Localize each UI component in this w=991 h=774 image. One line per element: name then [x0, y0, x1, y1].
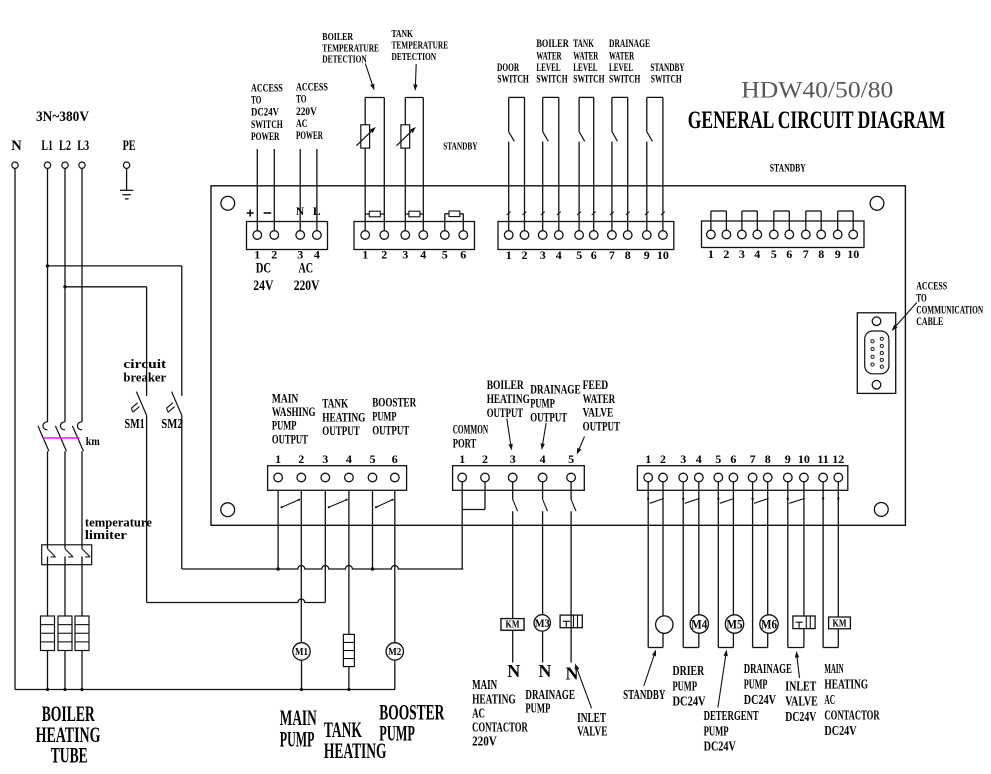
- svg-text:L3: L3: [77, 138, 89, 154]
- svg-text:1: 1: [506, 248, 512, 262]
- svg-text:POWER: POWER: [296, 128, 323, 142]
- svg-text:BOOSTER: BOOSTER: [372, 395, 416, 410]
- svg-text:4: 4: [556, 248, 562, 262]
- svg-text:TANK: TANK: [322, 396, 349, 411]
- svg-text:DETECTION: DETECTION: [392, 51, 437, 63]
- svg-text:PUMP: PUMP: [673, 678, 698, 693]
- svg-text:7: 7: [803, 247, 809, 261]
- svg-text:BOILER: BOILER: [322, 31, 354, 43]
- svg-text:7: 7: [750, 452, 756, 466]
- svg-text:TUBE: TUBE: [51, 743, 88, 768]
- svg-text:TEMPERATURE: TEMPERATURE: [392, 40, 449, 52]
- svg-text:STANDBY: STANDBY: [770, 162, 806, 174]
- svg-text:HEATING: HEATING: [487, 391, 530, 406]
- svg-text:PUMP: PUMP: [272, 418, 297, 433]
- svg-text:km: km: [86, 434, 100, 448]
- svg-text:BOILER: BOILER: [487, 377, 524, 392]
- svg-text:8: 8: [625, 248, 631, 262]
- svg-text:1: 1: [275, 452, 281, 466]
- svg-text:HEATING: HEATING: [824, 677, 868, 692]
- svg-text:HEATING: HEATING: [472, 691, 516, 706]
- svg-text:DC24V: DC24V: [824, 723, 856, 738]
- svg-text:circuit: circuit: [123, 356, 167, 371]
- svg-text:DRIER: DRIER: [673, 663, 705, 678]
- svg-text:limiter: limiter: [85, 528, 128, 542]
- svg-text:DRAINAGE: DRAINAGE: [530, 381, 581, 396]
- svg-text:8: 8: [765, 452, 771, 466]
- svg-text:N: N: [538, 661, 551, 681]
- svg-text:OUTPUT: OUTPUT: [530, 409, 567, 424]
- svg-text:STANDBY: STANDBY: [623, 687, 665, 702]
- svg-text:M3: M3: [535, 616, 550, 630]
- svg-text:FEED: FEED: [583, 377, 609, 392]
- svg-text:CABLE: CABLE: [916, 314, 943, 328]
- svg-text:OUTPUT: OUTPUT: [372, 423, 409, 438]
- svg-text:PUMP: PUMP: [704, 723, 729, 738]
- svg-text:TANK: TANK: [392, 28, 414, 40]
- svg-text:4: 4: [696, 452, 702, 466]
- svg-text:OUTPUT: OUTPUT: [487, 405, 524, 420]
- svg-text:OUTPUT: OUTPUT: [322, 423, 360, 438]
- svg-text:AC: AC: [824, 692, 835, 707]
- svg-text:WASHING: WASHING: [272, 404, 316, 419]
- svg-text:PUMP: PUMP: [372, 409, 396, 424]
- svg-text:PUMP: PUMP: [525, 701, 550, 716]
- svg-text:4: 4: [420, 248, 426, 262]
- svg-text:DC24V: DC24V: [744, 692, 776, 707]
- svg-text:PUMP: PUMP: [744, 676, 768, 691]
- svg-text:9: 9: [835, 247, 841, 261]
- svg-text:HDW40/50/80: HDW40/50/80: [741, 77, 893, 102]
- svg-text:SWITCH: SWITCH: [536, 72, 568, 86]
- svg-text:AC: AC: [299, 260, 314, 276]
- svg-text:N: N: [11, 138, 22, 154]
- svg-text:L2: L2: [59, 138, 71, 154]
- svg-text:4: 4: [754, 247, 760, 261]
- svg-text:GENERAL CIRCUIT DIAGRAM: GENERAL CIRCUIT DIAGRAM: [688, 107, 945, 134]
- svg-text:5: 5: [442, 248, 448, 262]
- svg-text:2: 2: [522, 248, 528, 262]
- svg-text:5: 5: [771, 247, 777, 261]
- svg-text:220V: 220V: [472, 734, 497, 749]
- svg-text:1: 1: [362, 248, 368, 262]
- svg-text:2: 2: [271, 248, 277, 262]
- svg-text:SWITCH: SWITCH: [651, 72, 682, 86]
- svg-text:3: 3: [510, 452, 516, 466]
- svg-text:9: 9: [785, 452, 791, 466]
- svg-text:VALVE: VALVE: [577, 724, 607, 739]
- svg-text:5: 5: [576, 248, 582, 262]
- svg-text:10: 10: [657, 248, 669, 262]
- svg-text:220V: 220V: [294, 278, 320, 294]
- svg-text:HEATING: HEATING: [324, 738, 387, 763]
- svg-text:M1: M1: [295, 646, 308, 658]
- svg-text:8: 8: [818, 247, 824, 261]
- svg-text:4: 4: [346, 452, 352, 466]
- svg-text:VALVE: VALVE: [583, 405, 614, 420]
- svg-text:KM: KM: [506, 620, 520, 631]
- svg-text:L: L: [313, 206, 321, 218]
- svg-text:6: 6: [591, 248, 597, 262]
- svg-text:MAIN: MAIN: [472, 677, 497, 692]
- svg-text:4: 4: [540, 452, 546, 466]
- svg-text:OUTPUT: OUTPUT: [583, 418, 621, 433]
- svg-text:10: 10: [798, 452, 810, 466]
- svg-text:1: 1: [645, 452, 651, 466]
- svg-text:PUMP: PUMP: [379, 721, 415, 746]
- svg-text:PORT: PORT: [453, 436, 477, 451]
- svg-text:M2: M2: [388, 646, 401, 658]
- svg-text:HEATING: HEATING: [322, 409, 365, 424]
- svg-text:2: 2: [298, 452, 304, 466]
- svg-text:PUMP: PUMP: [280, 726, 315, 751]
- svg-text:OUTPUT: OUTPUT: [272, 432, 308, 447]
- svg-text:3: 3: [739, 247, 745, 261]
- svg-text:6: 6: [460, 248, 466, 262]
- svg-text:DC: DC: [256, 260, 271, 276]
- svg-text:DC24V: DC24V: [673, 694, 706, 709]
- svg-text:5: 5: [715, 452, 721, 466]
- svg-text:AC: AC: [472, 705, 485, 720]
- svg-text:DETECTION: DETECTION: [322, 53, 366, 65]
- svg-text:PE: PE: [123, 138, 136, 154]
- svg-text:N: N: [507, 661, 520, 681]
- svg-text:VALVE: VALVE: [785, 694, 818, 709]
- svg-text:5: 5: [568, 452, 574, 466]
- svg-text:PUMP: PUMP: [530, 395, 555, 410]
- svg-text:1: 1: [459, 452, 465, 466]
- svg-text:KM: KM: [833, 619, 847, 630]
- svg-text:10: 10: [847, 247, 859, 261]
- svg-text:2: 2: [723, 247, 729, 261]
- svg-text:3N~380V: 3N~380V: [36, 109, 89, 125]
- svg-text:MAIN: MAIN: [824, 661, 843, 676]
- svg-text:4: 4: [314, 248, 320, 262]
- svg-text:DETERGENT: DETERGENT: [704, 708, 759, 723]
- svg-text:L1: L1: [41, 138, 53, 154]
- svg-text:6: 6: [786, 247, 792, 261]
- svg-text:SWITCH: SWITCH: [497, 72, 529, 86]
- svg-text:3: 3: [402, 248, 408, 262]
- svg-text:POWER: POWER: [251, 129, 280, 143]
- svg-text:9: 9: [644, 248, 650, 262]
- svg-text:CONTACTOR: CONTACTOR: [824, 708, 879, 723]
- svg-text:CONTACTOR: CONTACTOR: [472, 720, 528, 735]
- svg-text:M4: M4: [691, 617, 707, 632]
- svg-text:12: 12: [832, 452, 844, 466]
- svg-text:24V: 24V: [253, 278, 274, 294]
- svg-text:11: 11: [817, 452, 828, 466]
- svg-text:N: N: [296, 206, 305, 218]
- svg-text:3: 3: [540, 248, 546, 262]
- svg-text:DC24V: DC24V: [704, 739, 736, 754]
- svg-text:6: 6: [392, 452, 398, 466]
- svg-text:3: 3: [322, 452, 328, 466]
- svg-text:5: 5: [370, 452, 376, 466]
- svg-text:breaker: breaker: [123, 370, 166, 385]
- svg-text:2: 2: [482, 452, 488, 466]
- svg-text:M5: M5: [727, 617, 743, 632]
- svg-text:6: 6: [730, 452, 736, 466]
- svg-text:STANDBY: STANDBY: [443, 141, 477, 153]
- svg-text:1: 1: [708, 247, 714, 261]
- svg-text:M6: M6: [761, 617, 777, 632]
- svg-text:SWITCH: SWITCH: [609, 72, 641, 86]
- svg-text:SM1: SM1: [125, 416, 145, 431]
- svg-text:SM2: SM2: [161, 416, 183, 431]
- svg-text:INLET: INLET: [785, 678, 816, 693]
- svg-text:2: 2: [381, 248, 387, 262]
- svg-text:2: 2: [660, 452, 666, 466]
- svg-text:DC24V: DC24V: [785, 709, 816, 724]
- svg-text:SWITCH: SWITCH: [573, 72, 605, 86]
- svg-text:3: 3: [680, 452, 686, 466]
- svg-text:COMMON: COMMON: [453, 422, 489, 437]
- svg-text:DRAINAGE: DRAINAGE: [744, 661, 792, 676]
- svg-text:7: 7: [609, 248, 615, 262]
